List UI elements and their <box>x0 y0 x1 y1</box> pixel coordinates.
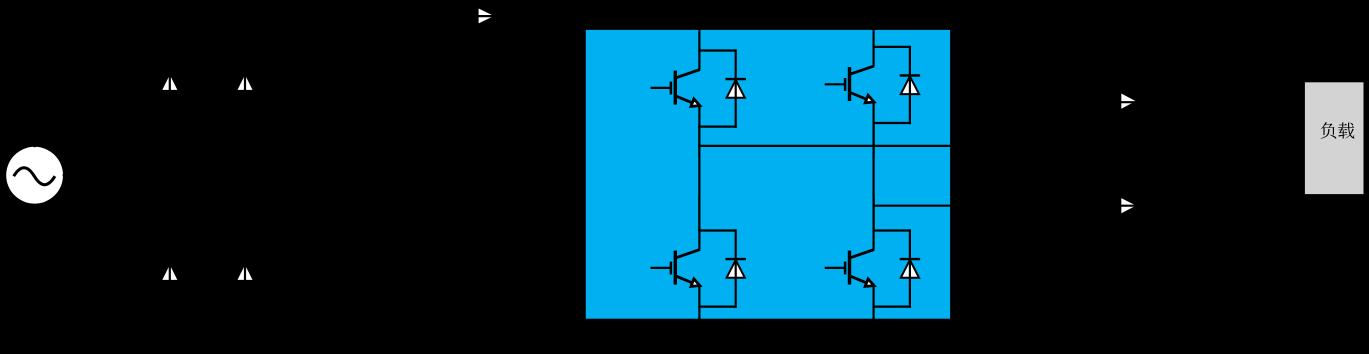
wire: left leg midpoint link <box>698 126 700 232</box>
diode D3 (bridge rectifier) <box>162 265 177 280</box>
diode D4 (bridge rectifier) <box>238 265 253 280</box>
diode D2 (bridge rectifier) <box>238 75 253 90</box>
inverter block background <box>586 30 950 319</box>
IGBT Q2 (top right) with diode <box>825 12 920 154</box>
arrow (output current bottom) <box>1121 198 1136 213</box>
wire: rectifier leg 1 <box>169 16 171 330</box>
diode D1 (bridge rectifier) <box>162 75 177 90</box>
IGBT Q3 (bottom left) with diode <box>651 196 746 338</box>
IGBT Q4 (bottom right) with diode <box>825 196 920 338</box>
wire: output rail A (node A) <box>698 145 950 147</box>
wire: AC source upper connection <box>35 120 245 147</box>
IGBT Q1 (top left) with diode <box>651 16 746 158</box>
arrow (output current top) <box>1121 94 1135 109</box>
wire: positive dc rail <box>170 15 874 17</box>
wire: output tap B (node B) <box>873 205 951 207</box>
load box <box>1305 82 1364 194</box>
wire: AC source to rectifier input <box>63 174 170 176</box>
arrow (dc link current) <box>479 9 494 24</box>
wire: negative dc rail <box>170 329 874 331</box>
wire: rectifier leg 2 <box>244 16 246 330</box>
wire: output A to load <box>950 102 1305 146</box>
label: 负载 (load) <box>1321 122 1355 138</box>
wire: right leg midpoint link <box>872 122 874 232</box>
AC source V1 <box>6 147 63 204</box>
wire: output B to load <box>950 190 1305 206</box>
